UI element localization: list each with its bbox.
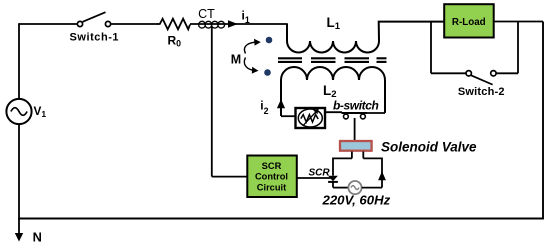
polarity dot bottom (L2) xyxy=(264,69,271,76)
solenoid pin right xyxy=(362,152,364,159)
svg-text:M: M xyxy=(231,53,241,67)
mutual arrow lower xyxy=(244,58,252,71)
polarity dot top (L1) xyxy=(266,37,273,44)
rheostat box xyxy=(296,108,326,128)
svg-text:Circuit: Circuit xyxy=(257,183,286,193)
wire b-switch to L2-right xyxy=(367,112,385,114)
svg-text:Switch-1: Switch-1 xyxy=(69,32,119,44)
svg-text:SCR: SCR xyxy=(262,161,282,171)
wire b-switch to solenoid xyxy=(354,118,356,140)
rheostat circle xyxy=(298,109,322,127)
solenoid valve xyxy=(340,141,372,151)
wire solenoid loop right xyxy=(363,158,382,187)
wire CT secondary vertical xyxy=(211,26,213,177)
svg-text:N: N xyxy=(33,230,42,245)
wire R0 to L1 xyxy=(190,23,288,25)
b-switch contacts xyxy=(344,114,366,119)
wire thyristor to ac source xyxy=(333,187,348,189)
svg-text:CT: CT xyxy=(198,7,215,21)
R-Load box xyxy=(444,4,494,37)
rheostat zigzag xyxy=(301,115,318,122)
wire from Switch-2 right xyxy=(496,72,518,74)
arrow i2 (on L2 left lead) xyxy=(277,99,285,108)
current transformer CT coil xyxy=(199,21,225,28)
thyristor SCR xyxy=(328,176,338,188)
inductor L1 (transformer primary) xyxy=(287,22,444,53)
rheostat arrow xyxy=(303,112,316,126)
wire right vertical xyxy=(542,22,544,219)
wire left vertical upper (to V1) xyxy=(18,23,20,99)
wire top-left horizontal to Switch-1 xyxy=(19,23,78,25)
svg-text:b-switch: b-switch xyxy=(333,99,379,113)
wire to Switch-2 left xyxy=(431,72,466,74)
wire solenoid loop left xyxy=(333,158,352,175)
wire bottom horizontal xyxy=(18,218,544,220)
svg-text:Switch-2: Switch-2 xyxy=(458,86,505,98)
ac source 220V xyxy=(348,181,361,194)
SCR control circuit box xyxy=(247,156,296,198)
wire Switch-2 left drop xyxy=(430,22,432,74)
transformer core lines xyxy=(278,58,387,62)
wire Switch-2 right drop xyxy=(517,22,519,74)
wire R-Load right to corner xyxy=(494,21,543,23)
mutual arrow upper xyxy=(244,42,254,53)
wire Switch-1 to R0 xyxy=(111,23,159,25)
resistor R0 xyxy=(157,19,190,30)
svg-text:SCR: SCR xyxy=(309,167,331,178)
svg-text:220V, 60Hz: 220V, 60Hz xyxy=(322,193,391,208)
source V1 xyxy=(6,99,31,124)
switch Switch-2 xyxy=(466,71,496,85)
arrow on right branch xyxy=(378,171,386,180)
node N tail wire xyxy=(18,219,20,235)
arrow i1 xyxy=(228,20,238,27)
b-switch bar xyxy=(342,112,368,114)
wire CT secondary into box xyxy=(212,176,248,178)
svg-text:Solenoid Valve: Solenoid Valve xyxy=(381,140,477,155)
wire ac source to right branch xyxy=(362,187,382,189)
svg-text:Control: Control xyxy=(255,171,288,181)
switch Switch-1 xyxy=(77,12,110,26)
wire L2-left to rheostat box xyxy=(281,115,295,117)
inductor L2 (transformer secondary) xyxy=(281,67,385,116)
wire box to thyristor gate xyxy=(297,177,332,179)
svg-text:R-Load: R-Load xyxy=(452,17,486,28)
wire rheostat to b-switch xyxy=(325,111,342,113)
solenoid pin left xyxy=(351,152,353,159)
wire left vertical lower (V1 to bottom) xyxy=(18,124,20,219)
node N arrowhead xyxy=(15,233,23,242)
